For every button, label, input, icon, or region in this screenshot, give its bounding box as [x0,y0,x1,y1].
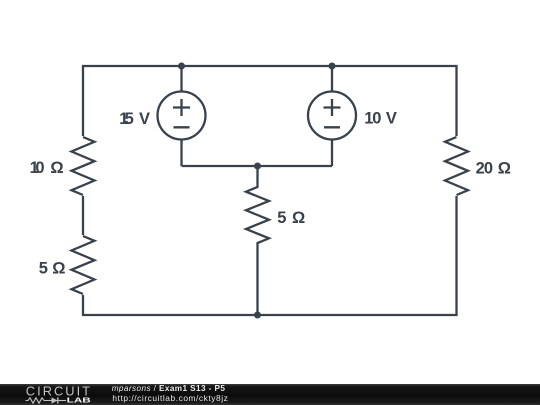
svg-text:Ω: Ω [50,159,63,177]
svg-text:Ω: Ω [292,209,305,227]
svg-text:V: V [386,110,397,128]
svg-text:mparsons / Exam1 S13 - P5: mparsons / Exam1 S13 - P5 [112,384,226,393]
svg-text:Ω: Ω [498,160,511,178]
svg-text:15: 15 [119,110,134,128]
svg-text:10: 10 [364,110,381,128]
svg-text:Ω: Ω [52,259,65,277]
svg-text:http://circuitlab.com/ckty8jz: http://circuitlab.com/ckty8jz [112,393,227,403]
svg-text:5: 5 [277,209,286,227]
svg-text:5: 5 [39,259,48,277]
svg-text:10: 10 [30,159,45,177]
svg-text:LAB: LAB [67,395,91,404]
svg-text:20: 20 [476,160,494,178]
svg-text:V: V [139,110,150,128]
